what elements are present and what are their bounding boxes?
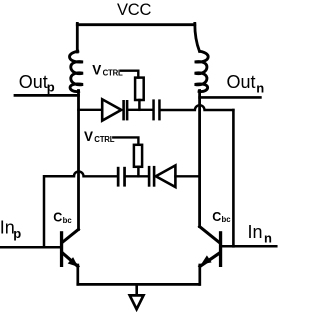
node VCC label: [117, 1, 152, 19]
svg-text:p: p: [47, 79, 55, 94]
node Inn label: [248, 222, 273, 245]
transistor Q1 collector diagonal: [63, 229, 79, 242]
svg-text:In: In: [248, 222, 263, 242]
capacitor C2 plates: [117, 167, 126, 187]
wire row1 mid: [128, 109, 152, 111]
ground symbol: [130, 295, 144, 309]
wire row2 from Inp side: corner and vertical: [44, 176, 74, 247]
varactor D2 triangle: [156, 165, 176, 187]
wire top VCC rail: [77, 23, 195, 26]
wire R1 bottom lead: [138, 100, 141, 110]
wire Vctrl2 stub: [113, 137, 138, 144]
transistor Q2 base bar: [219, 231, 222, 267]
capacitor C1 plates: [152, 99, 160, 120]
wire bottom rail: [78, 283, 199, 286]
svg-text:n: n: [256, 80, 264, 95]
node Outp label: [19, 72, 55, 94]
transistor Q2 emitter diagonal: [200, 253, 219, 266]
svg-text:C: C: [53, 211, 62, 225]
varactor D1 triangle: [102, 99, 121, 120]
svg-text:CTRL: CTRL: [94, 135, 114, 144]
svg-text:Out: Out: [19, 72, 48, 92]
wire down to Inn: [232, 110, 235, 246]
node Inp label: [0, 218, 21, 241]
wire right vertical stub from rail: [195, 23, 200, 51]
svg-text:CTRL: CTRL: [103, 68, 123, 77]
wire ground stem: [135, 284, 138, 296]
transistor Q1 emitter diagonal: [63, 253, 78, 266]
wire row2 mid: [126, 175, 148, 177]
inductor L1 (left, bumps left): [70, 51, 83, 91]
svg-text:C: C: [212, 210, 221, 224]
varactor D1 cathode bars: [122, 100, 128, 120]
transistor Q1 emitter arrow: [68, 257, 78, 267]
resistor R1: [135, 78, 144, 100]
node Outp wire: [15, 94, 78, 97]
svg-text:Out: Out: [227, 72, 256, 92]
svg-text:V: V: [92, 63, 101, 78]
node Outn label: [227, 72, 265, 95]
svg-text:VCC: VCC: [117, 1, 152, 19]
inductor L2 (right, bumps right): [195, 51, 208, 91]
node Vctrl2 label: [84, 129, 115, 144]
svg-text:bc: bc: [222, 215, 232, 224]
transistor Q1 base bar: [60, 231, 63, 267]
node Cbc label left: [53, 211, 72, 225]
svg-text:bc: bc: [63, 216, 73, 225]
node Inn wire: [222, 245, 276, 248]
svg-text:n: n: [264, 230, 272, 245]
wire right main vertical: [198, 91, 201, 227]
wire row2 hop over left vertical: [74, 172, 117, 177]
wire row2 right segment: [175, 175, 199, 177]
node Vctrl1 label: [92, 63, 123, 78]
wire Q1 emitter down: [76, 265, 79, 284]
wire left vertical stub from rail: [76, 23, 79, 52]
svg-text:p: p: [13, 226, 21, 241]
wire row1 right with hop over right vertical: [161, 105, 234, 110]
wire Q2 emitter down: [198, 265, 201, 285]
node Cbc label right: [212, 210, 231, 224]
wire Vctrl1 stub: [121, 71, 138, 78]
wire row1 left segment: [78, 109, 102, 111]
wire left main vertical: [77, 91, 80, 230]
svg-text:V: V: [84, 129, 93, 144]
transistor Q2 collector diagonal: [200, 227, 220, 243]
varactor D2 cathode bars: [148, 166, 156, 187]
wire R2 bottom lead: [137, 167, 140, 177]
resistor R2: [134, 145, 142, 167]
node Outn wire: [200, 96, 261, 99]
transistor Q2 emitter arrow: [201, 255, 212, 264]
node Inp wire: [1, 246, 60, 249]
